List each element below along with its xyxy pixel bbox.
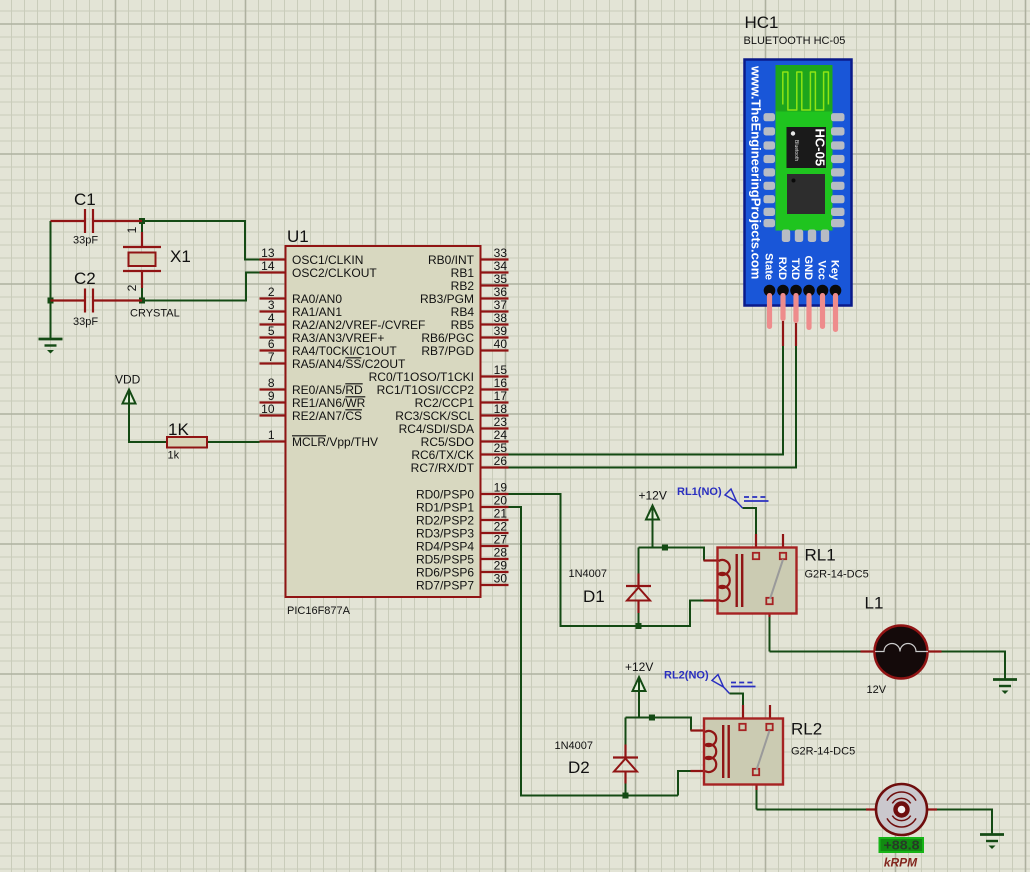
- svg-text:14: 14: [261, 259, 275, 273]
- svg-text:27: 27: [494, 533, 508, 547]
- svg-text:RA2/AN2/VREF-/CVREF: RA2/AN2/VREF-/CVREF: [292, 318, 425, 332]
- svg-text:RD3/PSP3: RD3/PSP3: [416, 526, 474, 540]
- svg-text:HC-05: HC-05: [813, 129, 828, 167]
- svg-text:RC4/SDI/SDA: RC4/SDI/SDA: [399, 422, 474, 436]
- svg-text:7: 7: [268, 350, 275, 364]
- svg-text:RE1/AN6/WR: RE1/AN6/WR: [292, 396, 366, 410]
- svg-text:Bluetooth: Bluetooth: [793, 140, 799, 161]
- svg-text:RXD: RXD: [776, 257, 788, 280]
- svg-text:2: 2: [268, 285, 275, 299]
- svg-text:5: 5: [268, 324, 275, 338]
- svg-text:33pF: 33pF: [73, 235, 98, 247]
- svg-text:+12V: +12V: [625, 660, 653, 674]
- svg-text:35: 35: [494, 272, 508, 286]
- svg-text:RA1/AN1: RA1/AN1: [292, 305, 342, 319]
- svg-text:30: 30: [494, 572, 508, 586]
- svg-text:38: 38: [494, 311, 508, 325]
- svg-text:Key: Key: [829, 260, 841, 281]
- svg-text:29: 29: [494, 559, 508, 573]
- svg-text:23: 23: [494, 415, 508, 429]
- svg-text:RC6/TX/CK: RC6/TX/CK: [411, 448, 474, 462]
- svg-text:4: 4: [268, 311, 275, 325]
- svg-text:18: 18: [494, 402, 508, 416]
- svg-text:CRYSTAL: CRYSTAL: [130, 308, 180, 320]
- svg-text:G2R-14-DC5: G2R-14-DC5: [805, 569, 869, 581]
- svg-text:1K: 1K: [168, 420, 189, 439]
- svg-text:RL2: RL2: [791, 720, 822, 739]
- svg-text:28: 28: [494, 546, 508, 560]
- svg-text:RD1/PSP1: RD1/PSP1: [416, 500, 474, 514]
- svg-text:1N4007: 1N4007: [555, 740, 594, 752]
- svg-text:RD0/PSP0: RD0/PSP0: [416, 487, 474, 501]
- svg-text:RA0/AN0: RA0/AN0: [292, 292, 342, 306]
- svg-text:RB2: RB2: [451, 279, 475, 293]
- svg-text:19: 19: [494, 481, 508, 495]
- svg-text:1k: 1k: [168, 450, 180, 462]
- svg-text:RD5/PSP5: RD5/PSP5: [416, 552, 474, 566]
- svg-text:RC3/SCK/SCL: RC3/SCK/SCL: [395, 409, 474, 423]
- svg-text:RB6/PGC: RB6/PGC: [421, 331, 474, 345]
- svg-text:1: 1: [268, 428, 275, 442]
- svg-text:D2: D2: [568, 758, 590, 777]
- svg-text:RC0/T1OSO/T1CKI: RC0/T1OSO/T1CKI: [369, 370, 474, 384]
- svg-text:34: 34: [494, 259, 508, 273]
- svg-text:20: 20: [494, 494, 508, 508]
- svg-text:MCLR/Vpp/THV: MCLR/Vpp/THV: [292, 435, 378, 449]
- svg-text:U1: U1: [287, 227, 309, 246]
- svg-text:15: 15: [494, 363, 508, 377]
- svg-text:24: 24: [494, 428, 508, 442]
- svg-text:1: 1: [125, 226, 139, 233]
- svg-text:17: 17: [494, 389, 508, 403]
- svg-text:RB3/PGM: RB3/PGM: [420, 292, 474, 306]
- svg-text:25: 25: [494, 441, 508, 455]
- svg-text:Vcc: Vcc: [816, 260, 828, 280]
- svg-text:10: 10: [261, 402, 275, 416]
- svg-text:OSC1/CLKIN: OSC1/CLKIN: [292, 253, 363, 267]
- svg-text:16: 16: [494, 376, 508, 390]
- svg-text:D1: D1: [583, 587, 605, 606]
- svg-text:2: 2: [125, 284, 139, 291]
- svg-text:RA5/AN4/SS/C2OUT: RA5/AN4/SS/C2OUT: [292, 357, 406, 371]
- svg-text:G2R-14-DC5: G2R-14-DC5: [791, 746, 855, 758]
- svg-text:33: 33: [494, 246, 508, 260]
- svg-text:+12V: +12V: [639, 489, 667, 503]
- svg-text:RB0/INT: RB0/INT: [428, 253, 475, 267]
- svg-text:HC1: HC1: [745, 13, 779, 32]
- svg-text:RC7/RX/DT: RC7/RX/DT: [411, 461, 475, 475]
- svg-text:C2: C2: [74, 269, 96, 288]
- svg-text:9: 9: [268, 389, 275, 403]
- svg-text:State: State: [763, 253, 775, 280]
- svg-text:RE2/AN7/CS: RE2/AN7/CS: [292, 409, 362, 423]
- svg-text:X1: X1: [170, 247, 191, 266]
- svg-text:L1: L1: [865, 594, 884, 613]
- svg-text:kRPM: kRPM: [884, 856, 918, 870]
- svg-text:21: 21: [494, 507, 508, 521]
- svg-text:13: 13: [261, 246, 275, 260]
- svg-text:1N4007: 1N4007: [569, 568, 608, 580]
- svg-text:RL2(NO): RL2(NO): [664, 670, 709, 682]
- svg-text:RA4/T0CKI/C1OUT: RA4/T0CKI/C1OUT: [292, 344, 397, 358]
- svg-text:RB5: RB5: [451, 318, 475, 332]
- svg-text:www.TheEngineeringProjects.com: www.TheEngineeringProjects.com: [749, 65, 764, 279]
- svg-text:RB4: RB4: [451, 305, 475, 319]
- svg-text:40: 40: [494, 337, 508, 351]
- svg-text:RB7/PGD: RB7/PGD: [421, 344, 474, 358]
- svg-text:RE0/AN5/RD: RE0/AN5/RD: [292, 383, 363, 397]
- svg-text:39: 39: [494, 324, 508, 338]
- svg-text:PIC16F877A: PIC16F877A: [287, 605, 351, 617]
- svg-text:OSC2/CLKOUT: OSC2/CLKOUT: [292, 266, 377, 280]
- svg-text:RD2/PSP2: RD2/PSP2: [416, 513, 474, 527]
- svg-text:RD6/PSP6: RD6/PSP6: [416, 565, 474, 579]
- svg-text:TXD: TXD: [789, 258, 801, 280]
- svg-text:RL1(NO): RL1(NO): [677, 486, 722, 498]
- svg-text:RD4/PSP4: RD4/PSP4: [416, 539, 474, 553]
- svg-text:12V: 12V: [867, 684, 887, 696]
- svg-text:C1: C1: [74, 190, 96, 209]
- svg-text:VDD: VDD: [115, 373, 141, 387]
- svg-text:RB1: RB1: [451, 266, 475, 280]
- svg-text:6: 6: [268, 337, 275, 351]
- svg-text:RC1/T1OSI/CCP2: RC1/T1OSI/CCP2: [377, 383, 475, 397]
- svg-text:RA3/AN3/VREF+: RA3/AN3/VREF+: [292, 331, 384, 345]
- svg-text:37: 37: [494, 298, 508, 312]
- svg-text:+88.8: +88.8: [884, 839, 920, 853]
- svg-text:22: 22: [494, 520, 508, 534]
- svg-text:GND: GND: [802, 256, 814, 281]
- svg-text:RD7/PSP7: RD7/PSP7: [416, 578, 474, 592]
- svg-text:26: 26: [494, 454, 508, 468]
- svg-text:RC2/CCP1: RC2/CCP1: [415, 396, 475, 410]
- svg-text:BLUETOOTH HC-05: BLUETOOTH HC-05: [744, 35, 846, 47]
- svg-text:8: 8: [268, 376, 275, 390]
- svg-text:36: 36: [494, 285, 508, 299]
- svg-text:RC5/SDO: RC5/SDO: [421, 435, 474, 449]
- svg-text:3: 3: [268, 298, 275, 312]
- svg-text:RL1: RL1: [805, 546, 836, 565]
- svg-text:33pF: 33pF: [73, 316, 98, 328]
